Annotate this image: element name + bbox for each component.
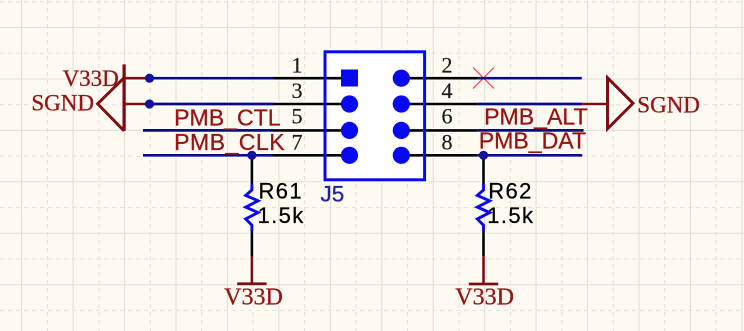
- svg-text:SGND: SGND: [31, 90, 94, 115]
- svg-text:R61: R61: [259, 178, 304, 203]
- svg-text:1.5k: 1.5k: [258, 203, 305, 228]
- svg-text:PMB_DAT: PMB_DAT: [479, 127, 586, 153]
- svg-text:V33D: V33D: [455, 285, 514, 311]
- svg-text:3: 3: [292, 78, 303, 103]
- svg-text:1: 1: [292, 52, 303, 77]
- svg-text:8: 8: [442, 129, 453, 154]
- svg-text:PMB_CTL: PMB_CTL: [174, 104, 281, 130]
- svg-text:PMB_ALT: PMB_ALT: [484, 104, 588, 130]
- svg-text:V33D: V33D: [63, 66, 119, 91]
- svg-text:R62: R62: [488, 178, 533, 203]
- svg-text:SGND: SGND: [637, 93, 700, 118]
- svg-text:V33D: V33D: [224, 285, 283, 311]
- svg-text:1.5k: 1.5k: [487, 203, 534, 228]
- svg-text:5: 5: [292, 103, 303, 128]
- svg-text:PMB_CLK: PMB_CLK: [174, 129, 285, 155]
- svg-text:2: 2: [442, 52, 453, 77]
- svg-text:6: 6: [442, 103, 453, 128]
- svg-text:J5: J5: [321, 181, 345, 206]
- svg-text:7: 7: [292, 129, 303, 154]
- svg-text:4: 4: [442, 78, 453, 103]
